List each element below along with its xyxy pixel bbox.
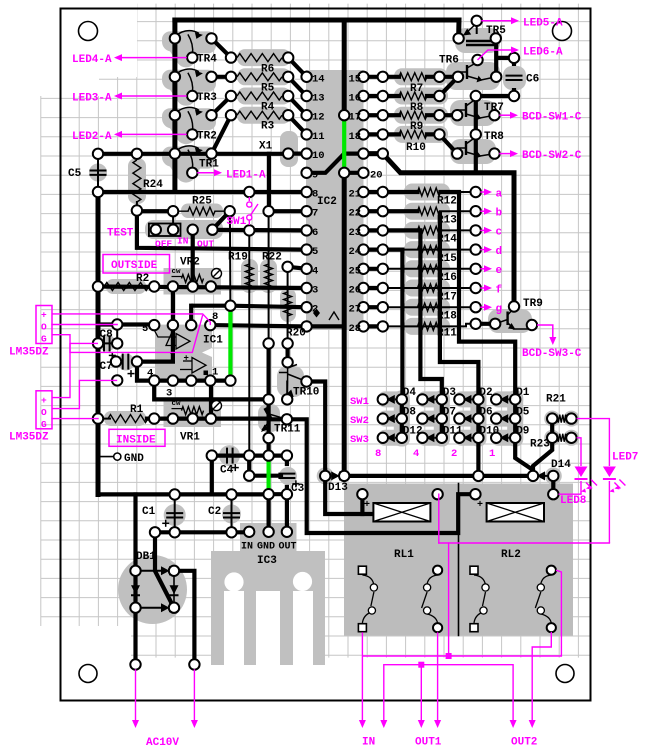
pad IC2 pin 20 [358, 168, 368, 178]
wire GND stub [98, 456, 113, 458]
wire TEST IN pad to VR2 wiper [191, 230, 195, 281]
wire pin19 elbow [363, 154, 514, 308]
svg-text:IN: IN [177, 236, 189, 247]
wire X1 to pin10 [288, 152, 306, 156]
pad segment e [471, 264, 481, 274]
svg-text:R21: R21 [546, 394, 566, 406]
pad C7 left [111, 356, 121, 366]
svg-text:1: 1 [212, 367, 218, 379]
pad TR4 base [206, 33, 216, 43]
R8 footprint [394, 88, 448, 105]
pad D6 cathode [473, 413, 483, 423]
pad TR9 out [527, 320, 537, 330]
pad segment c [471, 225, 481, 235]
wire row 532 [155, 530, 249, 534]
svg-text:INSIDE: INSIDE [116, 434, 156, 446]
pad TR4 emitter [187, 52, 197, 62]
pad node R22 TR11 [263, 338, 273, 348]
pad node pin22 junction [378, 206, 388, 216]
R18 footprint [404, 299, 450, 316]
wire pin23 R14 row [383, 228, 421, 232]
wire pin28 R11 row [383, 325, 466, 327]
TR5 footprint [455, 28, 500, 53]
svg-text:3: 3 [166, 388, 172, 400]
IC2 pin1 marker [313, 309, 320, 318]
pad TR7 out [489, 110, 499, 120]
pad IC2 pin 5 [301, 244, 311, 254]
pad R4 left [226, 91, 236, 101]
wire row15 R2 VR2 to pin3 [98, 287, 307, 289]
capacitor C6 [506, 75, 523, 77]
svg-text:TR5: TR5 [486, 25, 506, 37]
pad DB1 BR [169, 603, 179, 613]
svg-text:X1: X1 [259, 141, 273, 153]
svg-text:+: + [41, 395, 47, 406]
wire top rail [175, 18, 459, 23]
pad green C3 top [263, 450, 273, 460]
svg-text:D3: D3 [443, 387, 457, 399]
pad R21 left [547, 413, 557, 423]
pad TEST pad OFF [151, 225, 161, 235]
svg-text:D10: D10 [479, 426, 499, 438]
segment label g [481, 306, 487, 308]
pad D14 cathode [528, 471, 538, 481]
connector CN1 LM35DZ [36, 306, 52, 344]
svg-text:D9: D9 [516, 426, 529, 438]
wire row C4 C3 [212, 454, 287, 458]
pad D12 anode [378, 433, 388, 443]
pad RL2 com top [470, 566, 478, 574]
svg-text:LED2-A: LED2-A [72, 131, 112, 143]
svg-text:D14: D14 [551, 459, 571, 471]
C8 footprint [99, 335, 116, 352]
wire R20 column [287, 267, 289, 363]
R11 footprint [404, 318, 450, 335]
resistor R2 [104, 283, 149, 291]
resistor R10 [399, 130, 427, 138]
svg-text:22: 22 [349, 208, 362, 220]
capacitor C2 [223, 512, 240, 514]
pad node pin17 junction [378, 110, 388, 120]
pad RL2 no bottom [547, 623, 556, 632]
pad C5 top [93, 149, 103, 159]
pad node pin23 junction [378, 225, 388, 235]
wire pin24 R15 row [383, 248, 403, 252]
pad IC2 pin 3 [301, 283, 311, 293]
svg-text:g: g [496, 304, 503, 316]
diode D4 [386, 395, 395, 404]
pad IC1 pin1 [205, 375, 215, 385]
R12 footprint [404, 184, 450, 201]
pad node row475 a [473, 471, 483, 481]
svg-text:LED3-A: LED3-A [72, 93, 112, 105]
pad TR9 base right [490, 319, 500, 329]
svg-text:TR8: TR8 [484, 131, 504, 143]
svg-text:D5: D5 [516, 406, 530, 418]
pad R7 right [434, 72, 444, 82]
svg-text:RL2: RL2 [501, 549, 521, 561]
pad R4 right [283, 91, 293, 101]
op-amp IC1b [192, 358, 206, 374]
R5 footprint [237, 68, 291, 85]
wire DB1 left column [133, 571, 137, 665]
transistor TR6 [466, 65, 468, 79]
wire row10 pin8 [98, 190, 307, 194]
svg-text:OUT2: OUT2 [511, 737, 537, 749]
pad R24 bottom [132, 205, 142, 215]
pad X1 pin [283, 148, 293, 158]
segment label b [481, 210, 487, 212]
IC3 footprint [240, 523, 297, 551]
wire R9 to TR7 [439, 113, 457, 117]
wire R22 column [268, 211, 270, 343]
relay RL2 coil [487, 503, 544, 522]
R24 footprint [128, 158, 146, 204]
IC2 body [306, 70, 364, 330]
pad R6 left [226, 52, 236, 62]
wire top-rail corner to TR5 [456, 20, 461, 38]
wire R19 column [248, 230, 250, 455]
svg-text:17: 17 [349, 112, 362, 124]
capacitor C8 [103, 335, 105, 351]
wire R5 to pin13 [288, 77, 306, 96]
wire TR10 emitter stub [286, 382, 288, 400]
magenta wire CN2 plus [52, 343, 70, 397]
pad D7 cathode [437, 413, 447, 423]
wire R13 to pad b [440, 210, 476, 212]
svg-text:TR9: TR9 [523, 298, 543, 310]
pad D8 cathode [397, 413, 407, 423]
wire rail A [96, 192, 101, 495]
pad TR4 collector [170, 33, 180, 43]
relay RL1 RL2 body [344, 484, 573, 636]
resistor R13 [418, 207, 441, 215]
segment label a [481, 191, 487, 193]
diode D10 [463, 433, 472, 442]
pad R10 right [434, 129, 444, 139]
diode column 3 footprint [470, 391, 486, 447]
svg-text:R24: R24 [143, 179, 163, 191]
svg-text:D7: D7 [443, 406, 456, 418]
diode D6 [463, 414, 472, 423]
pad D4 anode [378, 394, 388, 404]
svg-text:SW1: SW1 [350, 396, 369, 408]
pad IC2 pin 19 [358, 148, 368, 158]
pad node R20 TR10 b [282, 357, 292, 367]
pad TR3 collector [170, 72, 180, 82]
diode D8 [386, 414, 395, 423]
wire row12 to pin6 [212, 228, 306, 233]
svg-text:OUT: OUT [279, 542, 297, 553]
C5 footprint [89, 164, 107, 182]
svg-text:R22: R22 [262, 252, 282, 264]
svg-text:11: 11 [312, 131, 325, 143]
wire C1 column [174, 495, 176, 533]
R22 footprint [260, 259, 277, 293]
resistor R11 [418, 322, 441, 330]
pad RL1 coil minus [432, 489, 442, 499]
magenta wire OUT2 right leg [532, 632, 551, 723]
diode D9 [500, 433, 509, 442]
resistor R15 [418, 246, 441, 254]
magenta wire CN1 plus to IC1 pin8 [52, 314, 210, 325]
wire RL1 coil plus stub [360, 494, 364, 514]
svg-text:D13: D13 [328, 482, 348, 494]
wire spine to pin20 [344, 171, 363, 175]
R14 footprint [404, 222, 450, 239]
wire col269 row8 to R22 [267, 154, 271, 211]
svg-text:GND: GND [124, 453, 144, 465]
wire R7 to TR6 [439, 75, 458, 79]
pad node row16 [225, 301, 235, 311]
wire D13 feed from TR10 [307, 382, 326, 476]
svg-text:LED1-A: LED1-A [226, 169, 266, 181]
svg-text:25: 25 [349, 265, 362, 277]
pad TR1 emitter [187, 168, 197, 178]
board outline [61, 9, 591, 701]
wire R10 to TR8 diagonal [439, 134, 457, 153]
svg-text:+: + [364, 500, 370, 511]
wire C8 pad drop [116, 325, 118, 344]
pad D3 anode [417, 394, 427, 404]
pad node pin21 junction [378, 187, 388, 197]
C4 footprint [219, 445, 240, 466]
pad node R20 TR10 a [282, 338, 292, 348]
svg-text:TR2: TR2 [197, 131, 217, 143]
pad node pin25 junction [378, 264, 388, 274]
svg-text:+: + [170, 350, 175, 360]
transistor TR8 [465, 141, 467, 155]
pad IC2 pin 1 [301, 321, 311, 331]
svg-text:TR4: TR4 [197, 54, 217, 66]
pad node pin16 junction [378, 91, 388, 101]
wire TR5-TR6 column [494, 38, 498, 76]
pad TR8 top [471, 129, 481, 139]
capacitor C4 [226, 448, 228, 464]
wire TR2 to R4 [212, 96, 232, 115]
pad TR11 out [282, 414, 292, 424]
net highlight green spine [342, 119, 346, 169]
segment label f [481, 287, 487, 289]
pad VR2 wiper [188, 281, 198, 291]
resistor R12 [418, 188, 441, 196]
pad TR1 collector [170, 148, 180, 158]
transistor TR1 [175, 146, 199, 154]
R3 footprint [237, 107, 291, 124]
svg-text:OUT: OUT [197, 239, 214, 250]
wire matrix column 8 [400, 399, 404, 437]
pad IC2 pin 12 [301, 110, 311, 120]
transistor TR11 [265, 408, 271, 419]
magenta wire IN left [361, 633, 363, 723]
magenta wire net 656 [362, 570, 561, 656]
svg-text:LED8: LED8 [560, 495, 587, 507]
pad D13 cathode [339, 471, 349, 481]
R13 footprint [404, 203, 450, 220]
pad IC2 pin 23 [358, 225, 368, 235]
pad D3 cathode [437, 394, 447, 404]
pad C8 right [112, 338, 122, 348]
R25 footprint [181, 204, 223, 219]
svg-text:R16: R16 [437, 272, 457, 284]
wire row 475.9 left [249, 474, 281, 478]
pad node pin27 junction [378, 302, 388, 312]
pad IC2 pin 16 [358, 91, 368, 101]
wire row 494 [98, 492, 269, 496]
svg-text:D11: D11 [443, 426, 463, 438]
R1 footprint [104, 411, 146, 426]
resistor R6 [237, 54, 282, 62]
wire TR11 emitter to row [267, 438, 271, 456]
pad node pin28 junction [378, 321, 388, 331]
DB1 footprint [118, 555, 187, 624]
wire R25 left leg [172, 211, 174, 230]
IC1 body [155, 325, 212, 381]
svg-text:R8: R8 [410, 102, 424, 114]
wire DB1 plus leg [155, 532, 173, 606]
pad D6 anode [454, 413, 464, 423]
pad TR8 base [452, 148, 462, 158]
bridge DB1 diodes [161, 566, 170, 575]
resistor R9 [399, 111, 427, 119]
R7 footprint [394, 68, 448, 85]
svg-text:5: 5 [312, 246, 318, 258]
pad AC pad 2 [189, 659, 199, 669]
mounting hole bottom-left [79, 665, 97, 683]
wire TR5 emitter stub [476, 21, 478, 33]
diode column 4 footprint [507, 391, 523, 447]
wire pin row R8 [363, 94, 399, 98]
wire IC2 spine upper [342, 20, 347, 115]
wire R24 bottom link [136, 202, 138, 211]
svg-text:R19: R19 [228, 252, 248, 264]
svg-text:23: 23 [349, 227, 362, 239]
svg-text:C1: C1 [142, 506, 156, 518]
wire matrix column 4 [440, 399, 444, 437]
svg-text:OUTSIDE: OUTSIDE [111, 260, 158, 272]
OUTSIDE box [103, 255, 170, 274]
R9 footprint [394, 107, 448, 124]
pad C3 top [282, 450, 292, 460]
resistor R14 [418, 226, 441, 234]
resistor R23 [556, 434, 568, 442]
svg-text:RL1: RL1 [394, 549, 414, 561]
pad R9 right [434, 110, 444, 120]
segment label c [481, 229, 487, 231]
svg-text:BCD-SW3-C: BCD-SW3-C [522, 348, 582, 360]
wire C4 right drop [247, 456, 251, 476]
pad GND test point [114, 453, 121, 460]
pad TR6 left [453, 72, 463, 82]
pad segment g [471, 302, 481, 312]
svg-text:VR1: VR1 [180, 432, 200, 444]
pad R25 left [168, 206, 178, 216]
svg-text:GND: GND [257, 542, 275, 553]
op-amp IC1a [176, 334, 190, 350]
pad IC2 pin 26 [358, 283, 368, 293]
R2 footprint [106, 279, 146, 294]
wire IC1 to VR1 column [209, 381, 213, 419]
svg-text:C3: C3 [291, 483, 305, 495]
pad D5 anode [491, 413, 501, 423]
pad D11 anode [417, 433, 427, 443]
pad IC2 pin 8 [301, 187, 311, 197]
wire pin21 R12 row [383, 190, 418, 194]
svg-text:D6: D6 [479, 406, 492, 418]
magenta wire OUT1 right [437, 633, 439, 723]
magenta wire AC right [193, 670, 195, 723]
pad D14 anode [548, 471, 558, 481]
resistor R22 [265, 264, 273, 288]
wire R25 to OUT pad diagonal [212, 211, 229, 230]
mounting hole bottom-right [556, 665, 574, 683]
wire row17 C8 link [98, 322, 154, 326]
wire TR11 collector column [267, 344, 271, 439]
wire matrix column 2 [476, 399, 480, 476]
pad C5 bottom [93, 187, 103, 197]
svg-text:5: 5 [142, 323, 148, 335]
wire spine to pin19 [344, 152, 363, 156]
pad D4 cathode [397, 394, 407, 404]
pad segment d [471, 244, 481, 254]
svg-text:e: e [496, 265, 503, 277]
svg-text:D2: D2 [479, 387, 492, 399]
svg-text:4: 4 [147, 368, 153, 380]
pad D2 cathode [473, 394, 483, 404]
R19 footprint [241, 259, 258, 293]
svg-text:OFF: OFF [155, 239, 172, 250]
svg-text:LED7: LED7 [612, 452, 638, 464]
svg-text:D1: D1 [516, 387, 530, 399]
pad DB1 TL [130, 566, 140, 576]
segment label d [481, 249, 487, 251]
svg-text:a: a [496, 188, 503, 200]
svg-text:1: 1 [489, 448, 495, 460]
wire pin row R10 [363, 132, 399, 136]
resistor R16 [418, 265, 441, 273]
svg-text:24: 24 [349, 246, 362, 258]
wire TR3 to R5 [212, 75, 232, 79]
diode D12 [386, 433, 395, 442]
pad RL1 com top [358, 566, 366, 574]
pad D10 cathode [473, 433, 483, 443]
capacitor C1 [166, 512, 183, 514]
R4 footprint [237, 88, 291, 105]
resistor R3 [237, 111, 282, 119]
pad R23 right [566, 433, 576, 443]
pad D9 anode [491, 433, 501, 443]
pad plus node row532 [150, 527, 160, 537]
wire R15 to pad d [402, 249, 475, 251]
svg-text:C6: C6 [526, 74, 539, 86]
R6 footprint [237, 49, 291, 66]
pad spine junction pin17 [339, 110, 349, 120]
pad R22 top [263, 206, 273, 216]
pad R5 right [283, 72, 293, 82]
wire IC1 bottom row [154, 379, 230, 383]
wire D14 to coil node [551, 476, 555, 494]
connector CN2 LM35DZ [36, 391, 52, 429]
svg-text:14: 14 [312, 73, 325, 85]
svg-text:D8: D8 [403, 406, 417, 418]
pad IC2 pin 14 [301, 72, 311, 82]
pad SW1 top [244, 187, 254, 197]
magenta wire CN2 G [52, 418, 98, 420]
TEST connector footprint [145, 220, 223, 239]
wire C7 to pin4 elbow [137, 362, 154, 381]
svg-text:2: 2 [451, 448, 457, 460]
pad D5 cathode [510, 413, 520, 423]
